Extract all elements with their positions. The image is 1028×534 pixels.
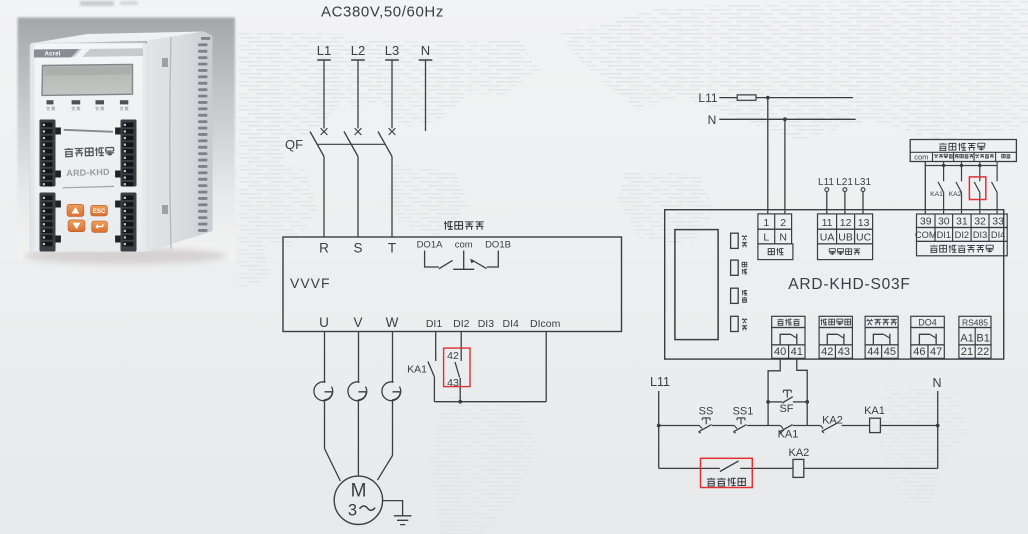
breaker QF — [285, 128, 395, 237]
labels DO1A com DO1B — [417, 240, 511, 251]
product photo background — [18, 1, 236, 264]
highlight box 42-43 — [444, 348, 470, 387]
motor M — [334, 476, 382, 524]
device model label — [788, 276, 910, 293]
svg-text:Acrel: Acrel — [44, 52, 60, 58]
terminal group bus-voltage 11-13 — [818, 214, 873, 260]
svg-text:ESC: ESC — [93, 209, 106, 215]
wire L1 drop — [323, 60, 325, 129]
wire L11 rail right — [756, 96, 853, 100]
terminal block upper-left — [40, 120, 61, 187]
node L2 — [351, 43, 365, 60]
relay contact KA1 — [428, 362, 435, 402]
Acrel logo band — [34, 48, 143, 57]
svg-text:SF: SF — [779, 403, 793, 415]
wire rung2 — [659, 467, 938, 469]
svg-text:COM: COM — [915, 230, 937, 240]
svg-text:DI1: DI1 — [937, 230, 951, 240]
svg-text:47: 47 — [930, 346, 942, 358]
svg-text:39: 39 — [920, 215, 932, 227]
node N top — [419, 43, 433, 60]
svg-text:com: com — [455, 240, 473, 251]
svg-text:L31: L31 — [854, 177, 871, 188]
svg-text:L11: L11 — [650, 375, 670, 389]
svg-text:VVVF: VVVF — [290, 275, 331, 291]
svg-text:W: W — [386, 315, 399, 330]
highlight box inverter-fault — [701, 458, 753, 487]
svg-text:DI3: DI3 — [973, 230, 987, 240]
svg-text:S: S — [353, 241, 362, 256]
node L3 — [385, 43, 399, 60]
terminal 43 label — [447, 377, 459, 389]
svg-text:13: 13 — [858, 217, 870, 229]
relay coil KA1 — [864, 405, 885, 433]
decorative map watermark — [238, 0, 1028, 534]
svg-text:DI4: DI4 — [503, 318, 520, 330]
svg-text:L11: L11 — [698, 91, 717, 105]
svg-text:3: 3 — [348, 502, 357, 520]
terminal block lower-right — [115, 193, 136, 252]
contact inverter-fault — [720, 461, 739, 472]
svg-text:DI3: DI3 — [478, 318, 495, 330]
wire com bus to 39 — [925, 162, 997, 215]
svg-text:L2: L2 — [351, 43, 365, 58]
terminal group power 1-2 L-N — [758, 214, 793, 260]
svg-text:11: 11 — [822, 217, 833, 229]
svg-text:N: N — [421, 43, 430, 58]
relay contact DO1 changeover — [425, 251, 499, 270]
svg-text:N: N — [932, 376, 941, 390]
button SS1 — [733, 406, 754, 434]
wire DI2 drop — [460, 332, 462, 362]
svg-text:DO4: DO4 — [918, 317, 937, 327]
terminal group DI 39-33 — [915, 214, 1007, 256]
front face edge shading — [31, 44, 148, 251]
node L11 rail — [698, 91, 737, 105]
supply label AC380V — [321, 4, 444, 21]
svg-text:1: 1 — [763, 217, 769, 229]
svg-text:N: N — [779, 232, 787, 244]
svg-text:UA: UA — [820, 232, 835, 244]
node L11 bottom — [650, 375, 670, 468]
svg-text:DIcom: DIcom — [530, 318, 561, 330]
status LEDs — [46, 100, 128, 110]
svg-text:DO1A: DO1A — [417, 240, 444, 251]
svg-text:N: N — [708, 113, 717, 127]
relay coil KA2 — [789, 447, 810, 477]
svg-text:KA1: KA1 — [778, 428, 799, 440]
svg-text:ARD-KHD-S03F: ARD-KHD-S03F — [788, 276, 910, 293]
node N rail — [708, 113, 856, 127]
relay contact KA2 rung1 — [821, 414, 843, 432]
device case — [30, 32, 213, 253]
terminal group fault-reset 42-43 — [819, 316, 852, 358]
terminal 42 label — [447, 350, 459, 362]
svg-text:M: M — [351, 481, 367, 502]
svg-text:DI1: DI1 — [426, 318, 443, 330]
svg-text:L3: L3 — [385, 43, 399, 58]
relay contacts to DI terminals — [938, 166, 997, 215]
wire from terminal 41 — [797, 358, 807, 425]
svg-text:QF: QF — [285, 137, 303, 152]
svg-text:2: 2 — [780, 217, 786, 229]
svg-text:L11: L11 — [818, 177, 834, 188]
svg-text:32: 32 — [974, 215, 986, 227]
wire L2 drop — [357, 60, 359, 129]
label fault-output — [444, 221, 484, 230]
button SF — [766, 390, 809, 415]
svg-text:L1: L1 — [317, 43, 331, 58]
display window — [675, 230, 718, 340]
svg-text:DI4: DI4 — [991, 230, 1005, 240]
svg-text:RS485: RS485 — [962, 317, 988, 327]
svg-text:T: T — [388, 241, 396, 256]
svg-text:31: 31 — [956, 215, 968, 227]
svg-text:V: V — [353, 315, 362, 330]
svg-text:33: 33 — [992, 215, 1004, 227]
terminal block lower-left — [40, 193, 61, 252]
contact 42-43 — [455, 362, 460, 402]
label KA2 contact — [949, 191, 962, 198]
terminal group run-output 44-45 — [865, 316, 898, 358]
svg-text:21: 21 — [961, 346, 973, 358]
svg-text:KA2: KA2 — [949, 191, 962, 198]
svg-text:42: 42 — [447, 350, 459, 362]
svg-text:30: 30 — [938, 215, 950, 227]
svg-text:DI2: DI2 — [955, 230, 969, 240]
switch input box — [910, 140, 1016, 162]
svg-text:com: com — [914, 152, 928, 161]
terminal group DO4 46-47 — [911, 316, 945, 358]
svg-text:45: 45 — [884, 346, 896, 358]
indicator LEDs — [731, 233, 748, 331]
wire from terminal 40 — [768, 358, 780, 425]
device model text — [66, 167, 110, 178]
inverter VVVF box — [283, 237, 622, 332]
svg-text:41: 41 — [791, 346, 803, 358]
label KA1 — [407, 364, 427, 376]
svg-text:46: 46 — [913, 346, 925, 358]
label KA1 contact — [930, 191, 943, 198]
wire L3 drop — [391, 60, 393, 129]
svg-text:KA1: KA1 — [864, 405, 885, 417]
svg-text:44: 44 — [867, 346, 879, 358]
svg-text:UC: UC — [856, 232, 872, 244]
wire to terminal 1 — [767, 98, 769, 214]
wire rung1 — [659, 425, 938, 427]
inverter DI labels — [426, 318, 561, 330]
svg-text:43: 43 — [838, 346, 850, 358]
relay contact KA1 rung1 — [778, 425, 799, 441]
terminal group RS485 — [959, 316, 991, 358]
svg-text:DO1B: DO1B — [485, 240, 511, 251]
device title text — [65, 147, 115, 157]
svg-text:KA1: KA1 — [407, 364, 427, 376]
keypad buttons — [67, 204, 107, 232]
inverter input labels R S T — [319, 241, 396, 256]
svg-text:ARD-KHD: ARD-KHD — [66, 167, 110, 178]
svg-text:U: U — [319, 315, 329, 330]
svg-text:SS1: SS1 — [733, 406, 754, 418]
wire DI1 drop — [435, 332, 437, 362]
svg-text:DI2: DI2 — [453, 318, 470, 330]
svg-text:40: 40 — [774, 346, 786, 358]
svg-text:KA1: KA1 — [930, 191, 943, 198]
wire DI common bus — [434, 400, 546, 404]
node N bottom — [932, 376, 941, 468]
inverter output labels U V W — [319, 315, 399, 330]
label inverter-fault — [707, 478, 745, 486]
wire N drop — [425, 60, 427, 131]
svg-text:42: 42 — [821, 346, 833, 358]
terminal group restart 40-41 — [772, 316, 805, 358]
panel divider lines — [63, 130, 115, 188]
svg-text:B1: B1 — [976, 333, 989, 345]
LCD display — [42, 64, 133, 95]
svg-text:SS: SS — [699, 406, 714, 418]
svg-text:R: R — [319, 241, 329, 256]
wires to motor — [325, 400, 393, 481]
wire to terminal 2 — [784, 119, 786, 214]
highlight box DI3 contact — [969, 177, 985, 200]
terminal block upper-right — [115, 120, 136, 187]
voltage input nodes L11 L21 L31 — [818, 177, 871, 214]
svg-text:12: 12 — [840, 217, 852, 229]
wire DIcom drop — [545, 332, 547, 402]
current transformers on U V W — [314, 332, 401, 401]
node L1 — [317, 43, 331, 60]
svg-text:L21: L21 — [836, 177, 853, 188]
svg-text:KA2: KA2 — [822, 414, 843, 426]
ground — [383, 501, 412, 525]
svg-text:A1: A1 — [960, 333, 973, 345]
svg-text:22: 22 — [977, 346, 989, 358]
svg-text:KA2: KA2 — [789, 447, 810, 459]
fuse FU — [737, 95, 756, 100]
svg-text:L: L — [763, 232, 769, 244]
device ARD-KHD-S03F box — [665, 210, 1004, 359]
svg-text:AC380V,50/60Hz: AC380V,50/60Hz — [321, 4, 444, 21]
svg-text:UB: UB — [838, 232, 853, 244]
button SS — [699, 406, 714, 434]
